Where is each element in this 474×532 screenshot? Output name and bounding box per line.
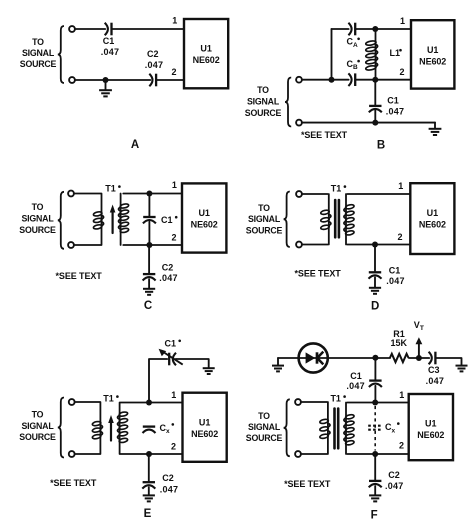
svg-text:TO: TO: [258, 203, 270, 213]
input terminal A-bottom: [69, 77, 75, 83]
VT supply arrow (F): [416, 337, 423, 358]
wire: A bottom rail, C2 to U1 pin 2: [156, 79, 184, 81]
wire: B top rail, CA to U1 pin 1: [355, 28, 411, 30]
wire: B bottom rail: [302, 122, 435, 124]
wire: C3 to ground: [435, 358, 461, 365]
svg-text:U1: U1: [200, 44, 212, 54]
svg-text:1: 1: [172, 180, 177, 190]
svg-text:.047: .047: [160, 485, 179, 495]
wire: B C1 riser upper: [374, 80, 376, 105]
node: junction F top-left: [372, 355, 378, 361]
label: C1 .047 (D): [386, 266, 405, 286]
wire: C primary top lead: [74, 193, 101, 195]
input terminal A-top: [69, 26, 75, 32]
capacitor CB (B): [348, 73, 355, 86]
wire: C C1 riser upper: [148, 194, 150, 216]
input terminal E-bottom: [69, 451, 75, 457]
label: T1* (D): [331, 184, 346, 194]
wire: A ground stub: [105, 80, 107, 90]
svg-text:T1: T1: [103, 394, 114, 404]
label: T1* (E): [103, 394, 118, 404]
svg-text:TO: TO: [32, 37, 44, 47]
label: R1 15K (F): [391, 329, 408, 348]
svg-text:1: 1: [172, 16, 177, 26]
node: junction D bottom: [372, 242, 378, 248]
panel D: signal-source brace: [284, 192, 290, 248]
svg-text:SIGNAL: SIGNAL: [247, 97, 280, 107]
svg-text:T1: T1: [331, 184, 342, 194]
variable capacitor arrow (E): [159, 349, 183, 365]
wire: C ground stub: [148, 279, 150, 288]
wire: D bottom rail to U1 pin 2: [347, 244, 410, 246]
svg-text:NE602: NE602: [193, 55, 220, 65]
svg-text:*SEE TEXT: *SEE TEXT: [56, 271, 103, 281]
wire: F top rail to U1 pin 1: [347, 402, 408, 404]
svg-text:.047: .047: [101, 47, 120, 57]
capacitor CA (B): [348, 23, 355, 36]
wire: B ground stub: [434, 123, 436, 129]
svg-text:C3: C3: [428, 365, 440, 375]
wire: C C1 riser lower: [148, 222, 150, 245]
input terminal C-top: [68, 191, 74, 197]
label: CA* (B): [347, 37, 360, 49]
node: junction E bottom: [146, 451, 152, 457]
svg-text:U1: U1: [427, 208, 439, 218]
svg-text:SIGNAL: SIGNAL: [248, 422, 281, 432]
svg-text:.047: .047: [386, 276, 405, 286]
wire: C bottom rail to U1 pin 2: [123, 244, 182, 246]
svg-text:NE602: NE602: [419, 56, 446, 66]
net label: TO SIGNAL SOURCE (F): [246, 411, 283, 443]
ground (F bottom): [369, 495, 381, 501]
svg-text:2: 2: [171, 233, 176, 243]
net label: TO SIGNAL SOURCE (C): [19, 202, 56, 235]
svg-text:SOURCE: SOURCE: [19, 225, 56, 235]
svg-text:C2: C2: [162, 473, 174, 483]
wire: A bottom rail, terminal to C2: [75, 79, 150, 81]
svg-text:F: F: [371, 510, 378, 522]
ground (E top): [203, 368, 215, 374]
label: C1* (C): [161, 215, 177, 225]
wire: E top rail to U1 pin 1: [120, 402, 182, 404]
net label: TO SIGNAL SOURCE (A): [20, 37, 57, 69]
node: junction F at VT: [416, 355, 422, 361]
wire: E bottom rail to U1 pin 2: [120, 453, 182, 455]
input terminal B-bottom: [296, 120, 302, 126]
wire: F C1 riser lower: [374, 386, 376, 403]
wire: D top rail to U1 pin 1: [347, 193, 410, 195]
transformer T1 secondary (F): [344, 403, 355, 455]
input terminal E-top: [69, 399, 75, 405]
svg-text:1: 1: [400, 16, 405, 26]
svg-text:NE602: NE602: [191, 220, 218, 230]
wire: F ground to varactor: [278, 357, 299, 359]
svg-text:C1: C1: [389, 266, 401, 276]
svg-text:.047: .047: [159, 273, 178, 283]
capacitor C1 (D): [369, 272, 382, 278]
svg-text:U1: U1: [198, 208, 210, 218]
panel C: signal-source brace: [58, 192, 64, 249]
svg-text:SIGNAL: SIGNAL: [22, 48, 55, 58]
svg-text:NE602: NE602: [419, 219, 446, 229]
wire: C top rail to U1 pin 1: [123, 193, 182, 195]
input terminal D-top: [296, 191, 302, 197]
transformer T1 coupling arrow (C): [110, 205, 116, 234]
wire: F C1 riser upper: [374, 358, 376, 380]
svg-text:.047: .047: [386, 106, 405, 116]
svg-text:*SEE TEXT: *SEE TEXT: [295, 269, 342, 279]
capacitor C1 (F): [369, 381, 382, 387]
transformer T1 secondary (E): [118, 403, 129, 455]
panel E: signal-source brace: [58, 398, 64, 458]
net label: TO SIGNAL SOURCE (E): [19, 410, 56, 443]
transformer T1 secondary (D): [344, 194, 355, 245]
input terminal B-top: [296, 77, 302, 83]
transformer T1 secondary (C): [119, 194, 130, 246]
capacitor CX (E): [143, 427, 156, 433]
capacitor CX dashed (F): [368, 426, 382, 430]
input terminal D-bottom: [296, 242, 302, 248]
ground (A): [99, 90, 112, 96]
svg-text:C: C: [144, 300, 152, 312]
variable capacitor C1 (E): [169, 353, 176, 366]
panel B: signal-source brace: [285, 78, 291, 127]
op-amp U1 NE602 (D): [410, 183, 454, 254]
node: junction B top-right: [372, 26, 378, 32]
svg-text:C1: C1: [350, 371, 362, 381]
label: T1* (F): [330, 394, 345, 404]
node: junction F bottom rail: [372, 451, 378, 457]
wire: B left riser: [331, 29, 333, 80]
svg-text:SIGNAL: SIGNAL: [21, 421, 54, 431]
svg-text:SOURCE: SOURCE: [246, 433, 283, 443]
wire: D primary bottom lead: [302, 244, 328, 246]
capacitor C1 (C): [143, 217, 156, 223]
wire: C C2 riser: [148, 245, 150, 273]
wire: F dashed CX riser: [374, 406, 376, 451]
svg-text:SOURCE: SOURCE: [19, 432, 56, 442]
op-amp U1 NE602 (A): [184, 19, 228, 88]
svg-text:C1: C1: [161, 215, 173, 225]
svg-text:SIGNAL: SIGNAL: [21, 214, 54, 224]
node: junction B mid-right: [372, 77, 378, 83]
svg-text:15K: 15K: [391, 338, 408, 348]
wire: C primary bottom lead: [74, 244, 101, 246]
input terminal F-top: [295, 399, 301, 405]
ground (D): [369, 288, 381, 294]
svg-text:2: 2: [171, 442, 176, 452]
wire: B mid rail, terminal to CB: [302, 79, 349, 81]
label: CB* (B): [347, 59, 360, 71]
wire: E ground stub: [148, 487, 150, 495]
svg-text:C1: C1: [103, 36, 115, 46]
ground (C): [143, 289, 155, 295]
wire: E primary top lead: [75, 401, 100, 403]
node: junction on A bottom rail: [103, 77, 109, 83]
panel F: signal-source brace: [284, 399, 290, 456]
node: junction F top rail: [372, 400, 378, 406]
svg-text:1: 1: [399, 390, 404, 400]
label: C2 .047 (A): [145, 49, 164, 70]
svg-text:SOURCE: SOURCE: [246, 226, 283, 236]
svg-text:SOURCE: SOURCE: [20, 59, 57, 69]
wire: R1 to C3: [409, 357, 429, 359]
capacitor C3 (F): [429, 352, 436, 365]
label: C2 .047 (E): [160, 473, 179, 494]
label: C1 .047 (F): [346, 371, 365, 391]
label: CX* (F): [385, 422, 400, 434]
wire: D primary top lead: [302, 193, 328, 195]
net label: TO SIGNAL SOURCE (B): [245, 85, 282, 118]
wire: F left ground stub: [277, 358, 279, 365]
svg-text:2: 2: [399, 441, 404, 451]
svg-text:1: 1: [398, 181, 403, 191]
label: T1* (C): [105, 184, 120, 194]
svg-text:.047: .047: [385, 481, 404, 491]
transformer T1 primary (F): [319, 402, 330, 454]
wire: F ground stub: [374, 486, 376, 495]
svg-text:.047: .047: [426, 376, 445, 386]
wire: B mid rail, CB to U1 pin 2: [355, 79, 411, 81]
transformer T1 core (F): [335, 409, 339, 449]
label: C2 .047 (C): [159, 263, 178, 283]
wire: A top rail, terminal to C1: [75, 28, 105, 30]
capacitor C2 (A): [149, 74, 156, 87]
ground (F left): [272, 366, 284, 372]
capacitor C1 (A): [105, 23, 112, 36]
svg-text:U1: U1: [199, 417, 211, 427]
svg-text:TO: TO: [257, 85, 269, 95]
capacitor C1 (B): [369, 106, 382, 112]
svg-text:B: B: [377, 140, 385, 152]
wire: F C2 riser: [374, 454, 376, 480]
svg-text:U1: U1: [427, 45, 439, 55]
net label: TO SIGNAL SOURCE (D): [246, 203, 283, 235]
svg-text:*SEE TEXT: *SEE TEXT: [50, 478, 97, 488]
svg-text:T1: T1: [105, 184, 116, 194]
op-amp U1 NE602 (F): [409, 394, 453, 460]
wire: F bottom rail to U1 pin 2: [347, 453, 408, 455]
input terminal C-bottom: [68, 242, 74, 248]
svg-text:1: 1: [171, 390, 176, 400]
op-amp U1 NE602 (B): [411, 20, 454, 88]
svg-text:C2: C2: [162, 263, 174, 273]
varactor diode D1 (F): [299, 343, 328, 372]
svg-text:NE602: NE602: [417, 430, 444, 440]
label: C1 .047 (A): [101, 36, 120, 57]
label: CX* (E): [160, 423, 175, 435]
svg-text:C2: C2: [147, 49, 159, 59]
svg-text:SIGNAL: SIGNAL: [248, 214, 281, 224]
inductor L1 (B): [365, 29, 377, 80]
svg-text:*SEE TEXT: *SEE TEXT: [284, 479, 331, 489]
ground (B): [429, 129, 442, 135]
node: junction B bottom: [372, 120, 378, 126]
transformer T1 primary (D): [320, 194, 331, 245]
op-amp U1 NE602 (C): [182, 183, 226, 252]
svg-text:TO: TO: [32, 410, 44, 420]
label: C3 .047 (F): [426, 365, 445, 386]
svg-text:*SEE TEXT: *SEE TEXT: [301, 130, 348, 140]
svg-text:.047: .047: [346, 381, 365, 391]
wire: B top rail, riser to CA: [332, 28, 349, 30]
svg-text:C1: C1: [165, 339, 177, 349]
transformer T1 coupling arrow (E): [108, 415, 114, 441]
label: L1* (B): [390, 48, 402, 58]
svg-text:SOURCE: SOURCE: [245, 108, 282, 118]
capacitor C2 (E): [142, 482, 155, 488]
wire: B C1 riser lower: [374, 111, 376, 123]
transformer T1 core (D): [335, 200, 339, 237]
svg-text:U1: U1: [425, 419, 437, 429]
svg-text:C1: C1: [387, 96, 399, 106]
wire: E primary bottom lead: [75, 453, 100, 455]
svg-text:TO: TO: [32, 202, 44, 212]
panel A: signal-source brace: [58, 26, 64, 83]
wire: A top rail, C1 to U1 pin 1: [112, 28, 185, 30]
op-amp U1 NE602 (E): [183, 393, 227, 462]
node: junction B mid-left: [329, 77, 335, 83]
wire: F primary bottom lead: [301, 453, 327, 455]
svg-text:.047: .047: [145, 60, 164, 70]
wire: D C1 riser: [374, 245, 376, 271]
svg-text:NE602: NE602: [191, 429, 218, 439]
svg-text:C2: C2: [388, 470, 400, 480]
wire: F primary top lead: [301, 401, 327, 403]
transformer T1 primary (E): [92, 402, 103, 454]
svg-text:L1: L1: [390, 48, 401, 58]
node: junction C top: [146, 191, 152, 197]
node: junction C bottom: [146, 242, 152, 248]
svg-text:A: A: [131, 139, 139, 151]
input terminal F-bottom: [295, 451, 301, 457]
transformer T1 primary (C): [93, 194, 104, 246]
label: C1 .047 (B): [386, 96, 405, 117]
wire: F varactor to R1: [328, 357, 390, 359]
svg-text:E: E: [144, 508, 152, 520]
label: C1* (E): [165, 339, 181, 349]
ground (F right): [456, 366, 468, 372]
ground (E bottom): [143, 495, 155, 501]
wire: E C1 to ground: [176, 359, 209, 367]
label: C2 .047 (F): [385, 470, 404, 491]
resistor R1 (F): [390, 354, 409, 362]
svg-text:2: 2: [397, 232, 402, 242]
svg-text:2: 2: [171, 67, 176, 77]
svg-text:2: 2: [399, 67, 404, 77]
wire: E branch riser to C1: [149, 359, 167, 403]
svg-text:D: D: [371, 301, 379, 313]
wire: D ground stub: [374, 277, 376, 287]
svg-text:TO: TO: [258, 411, 270, 421]
node: junction E top: [146, 400, 152, 406]
capacitor C2 (C): [143, 274, 156, 280]
svg-text:T1: T1: [330, 394, 341, 404]
wire: E C2 riser: [148, 454, 150, 481]
capacitor C2 (F): [369, 481, 382, 487]
